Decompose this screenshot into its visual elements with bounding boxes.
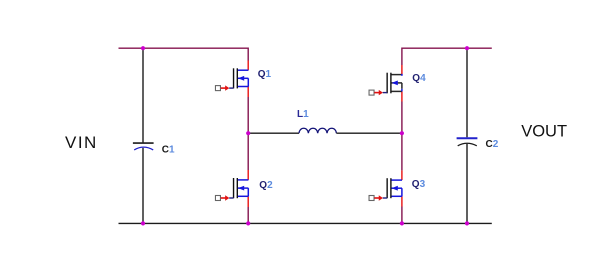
wire C2 bottom leg <box>466 144 468 224</box>
wire Q2 source to bottom rail <box>247 196 249 207</box>
capacitor C2 <box>457 138 478 146</box>
junction ground Q2 <box>246 221 250 225</box>
capacitor C1 <box>133 143 154 150</box>
wire Q1 source to switch node A <box>247 87 249 98</box>
junction node B (switch node right) <box>400 131 404 135</box>
wire top rail right segment (Q4 drain to VOUT+ bus) <box>402 47 492 49</box>
wire C1 bottom leg <box>142 148 144 224</box>
wire Q4 drain vertical <box>401 48 403 66</box>
wire Q1 drain vertical <box>247 48 249 61</box>
wire switch node A to L1 <box>248 132 299 134</box>
wire C2 top leg <box>466 48 468 137</box>
inductor L1 <box>299 128 336 133</box>
svg-text:Q4: Q4 <box>412 73 426 84</box>
svg-text:VIN: VIN <box>65 133 98 152</box>
wire Q3 source to bottom rail <box>401 196 403 206</box>
junction ground C2 <box>465 221 469 225</box>
svg-text:C2: C2 <box>486 139 499 150</box>
wire Q4 source to switch node B <box>401 91 403 101</box>
junction ground C1 <box>141 221 145 225</box>
junction node VIN+/C1 <box>141 46 145 50</box>
wire C1 top leg <box>142 48 144 142</box>
svg-text:Q3: Q3 <box>412 179 426 190</box>
junction node A (switch node left) <box>246 131 250 135</box>
junction ground Q3 <box>400 221 404 225</box>
wire L1 to switch node B <box>336 132 402 134</box>
transistor Q1 <box>215 68 248 91</box>
transistor Q2 <box>215 178 248 201</box>
svg-text:C1: C1 <box>162 145 175 156</box>
wire node A to Q2 drain <box>247 133 249 170</box>
svg-text:L1: L1 <box>297 109 309 120</box>
wire bottom rail (ground bus) <box>119 222 492 224</box>
svg-text:Q1: Q1 <box>258 69 272 80</box>
junction node VOUT+/C2 <box>465 46 469 50</box>
svg-text:Q2: Q2 <box>259 180 273 191</box>
wire top rail left segment (VIN+ bus to Q1 drain) <box>119 47 249 49</box>
svg-text:VOUT: VOUT <box>521 123 567 141</box>
pin Q1 drain <box>247 61 249 71</box>
pin Q4 drain <box>401 65 403 75</box>
transistor Q4 <box>369 73 402 96</box>
transistor Q3 <box>369 178 402 201</box>
wire node B to Q3 drain <box>401 133 403 170</box>
